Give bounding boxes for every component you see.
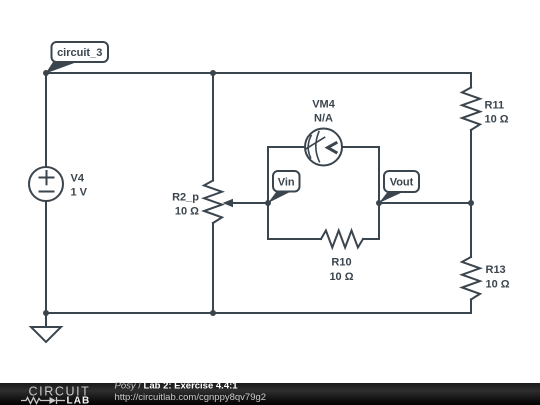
label R2_p value (172, 192, 199, 218)
resistor R2_p body (potentiometer zigzag) (204, 181, 222, 224)
voltage source V4 circle (29, 167, 63, 201)
CircuitLab logo resistor-diode graphic (21, 397, 65, 404)
wire loop bottom left (268,239 to R10 left) (268, 238, 321, 240)
junction node bottom-left (46,313) (43, 310, 49, 316)
svg-text:LAB: LAB (67, 396, 91, 405)
wire right vertical bottom (R13 bottom to 471,313) (470, 300, 472, 314)
svg-text:R11: R11 (485, 100, 505, 112)
svg-text:10 Ω: 10 Ω (175, 206, 199, 218)
label V4 value (71, 173, 88, 199)
wire middle vertical lower (R2_p bottom to 213,313) (212, 223, 214, 313)
wire left vertical upper (46,73 to V4 top) (45, 73, 47, 167)
svg-text:10 Ω: 10 Ω (486, 279, 510, 291)
svg-text:V4: V4 (71, 173, 85, 185)
junction node top-left (46,73) (43, 70, 49, 76)
label R10 value (329, 257, 353, 284)
resistor R10 body (321, 231, 363, 248)
svg-text:10 Ω: 10 Ω (329, 271, 353, 283)
wire wiper horizontal (arrow to 268,203) (231, 202, 268, 204)
net label circuit_3 (46, 42, 109, 74)
svg-text:http://circuitlab.com/cgnppy8q: http://circuitlab.com/cgnppy8qv79g2 (115, 392, 267, 403)
svg-text:1 V: 1 V (71, 187, 88, 199)
label VM4 value (312, 99, 336, 125)
wire right vertical middle (R11 bottom to R13 top) (470, 130, 472, 257)
wire top-left horizontal (node at 46,73 to 213,73) (46, 72, 213, 74)
label R13 value (486, 264, 510, 291)
svg-text:R10: R10 (331, 257, 351, 269)
wire top-right horizontal (213,73 to 471,73) (213, 72, 471, 74)
svg-text:Vin: Vin (278, 177, 295, 189)
wiper arrowhead of R2_p (223, 199, 234, 207)
junction node top-middle (213,73) (210, 70, 216, 76)
svg-text:circuit_3: circuit_3 (57, 47, 102, 59)
footer bar (0, 383, 540, 405)
junction node right bus (471,203) (468, 200, 474, 206)
wire right vertical top (471,73 to R11 top) (470, 73, 472, 88)
wire loop top right (VM4 right to 379,147) (342, 146, 379, 148)
wire left vertical lower (V4 bottom to ground node) (45, 201, 47, 313)
junction node Vin (268,203) (265, 200, 271, 206)
svg-text:R2_p: R2_p (172, 192, 199, 204)
resistor R13 body (462, 257, 480, 300)
svg-text:Vout: Vout (390, 177, 414, 189)
wire middle vertical upper (213,73 to R2_p top) (212, 73, 214, 181)
label R11 value (485, 100, 509, 126)
wire bottom horizontal left (46,313 to 213,313) (46, 312, 213, 314)
junction node Vout (379,203) (376, 200, 382, 206)
svg-text:R13: R13 (486, 264, 506, 276)
svg-text:VM4: VM4 (312, 99, 336, 111)
junction node bottom-middle (213,313) (210, 310, 216, 316)
wire loop left vertical (268,147 to 268,239) (267, 147, 269, 239)
svg-text:10 Ω: 10 Ω (485, 114, 509, 126)
wire loop bottom right (R10 right to 379,239) (363, 238, 379, 240)
ground symbol (31, 313, 61, 342)
voltmeter VM4 circle (305, 129, 342, 166)
net label Vout (379, 171, 419, 203)
wire bottom horizontal right (213,313 to 471,313) (213, 312, 471, 314)
wire Vout node to right bus (379,203 to 471,203) (379, 202, 471, 204)
svg-text:N/A: N/A (314, 113, 333, 125)
resistor R11 body (462, 88, 480, 131)
net label Vin (268, 171, 300, 203)
wire loop top left (268,147 to VM4 left) (268, 146, 305, 148)
svg-text:Posy / Lab 2: Exercise 4.4:1: Posy / Lab 2: Exercise 4.4:1 (115, 381, 239, 392)
wire loop right vertical (379,147 to 379,239) (378, 147, 380, 239)
